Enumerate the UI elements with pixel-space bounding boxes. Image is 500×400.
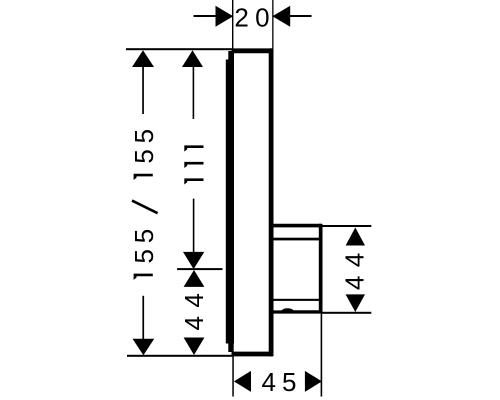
handle front top step <box>228 51 234 61</box>
dim 111 label <box>184 178 203 184</box>
svg-text:44: 44 <box>179 285 209 331</box>
plate bottom edge <box>232 352 274 357</box>
wall box bottom line with bump <box>273 308 321 313</box>
svg-text:55: 55 <box>129 223 159 264</box>
bottom extension line <box>127 355 233 357</box>
dim 44 left down arrow <box>184 338 205 356</box>
svg-text:45: 45 <box>262 367 303 397</box>
top extension line <box>126 48 233 50</box>
dim 45 right arrow <box>305 371 322 392</box>
dim 111 digit 3 <box>184 145 203 151</box>
dim 44 right up arrow <box>346 228 365 246</box>
dim 45 left arrow <box>234 371 251 392</box>
svg-text:44: 44 <box>339 244 369 290</box>
dim 155 down arrow <box>133 339 155 356</box>
dim 44 right down arrow <box>346 294 365 312</box>
dim 155 label slash <box>132 201 158 214</box>
svg-text:20: 20 <box>234 2 276 32</box>
dim 155 up arrow <box>132 50 154 67</box>
dim 20 left tail line <box>194 15 217 17</box>
dim 45 right extension line <box>321 314 323 397</box>
handle front bottom step <box>228 343 233 352</box>
handle front face bar <box>226 60 234 344</box>
wall box top line <box>271 224 321 228</box>
dim 20 right arrow <box>272 6 290 27</box>
dim 44 left up arrow <box>184 270 205 287</box>
wall box inner bottom line <box>274 299 321 301</box>
wall box top extension line <box>321 225 371 227</box>
plate right edge <box>269 48 274 356</box>
dim 111 digit 2 <box>184 162 203 168</box>
dim 45 left extension line <box>232 356 234 397</box>
svg-text:55: 55 <box>129 123 159 164</box>
wall box inner top line <box>271 238 321 241</box>
plate top edge <box>232 48 274 53</box>
dim 111 line lower segment <box>193 199 195 252</box>
dim 20 right tail line <box>290 15 312 17</box>
dim 155 label digit 1b <box>134 174 153 180</box>
dim 155 line lower segment <box>142 296 144 340</box>
wall box bottom extension line <box>321 312 371 314</box>
dim 20 left extension line <box>232 0 233 49</box>
dim 111 line upper segment <box>193 66 195 119</box>
junction tick line <box>177 268 222 270</box>
wall box right edge <box>319 224 323 314</box>
dim 20 right extension line <box>272 0 273 49</box>
dim 155 line upper segment <box>142 66 144 114</box>
dim 111 down arrow <box>183 252 204 269</box>
dim 20 left arrow <box>216 6 234 27</box>
dim 155 label <box>134 274 153 280</box>
dim 111 up arrow <box>182 50 203 67</box>
